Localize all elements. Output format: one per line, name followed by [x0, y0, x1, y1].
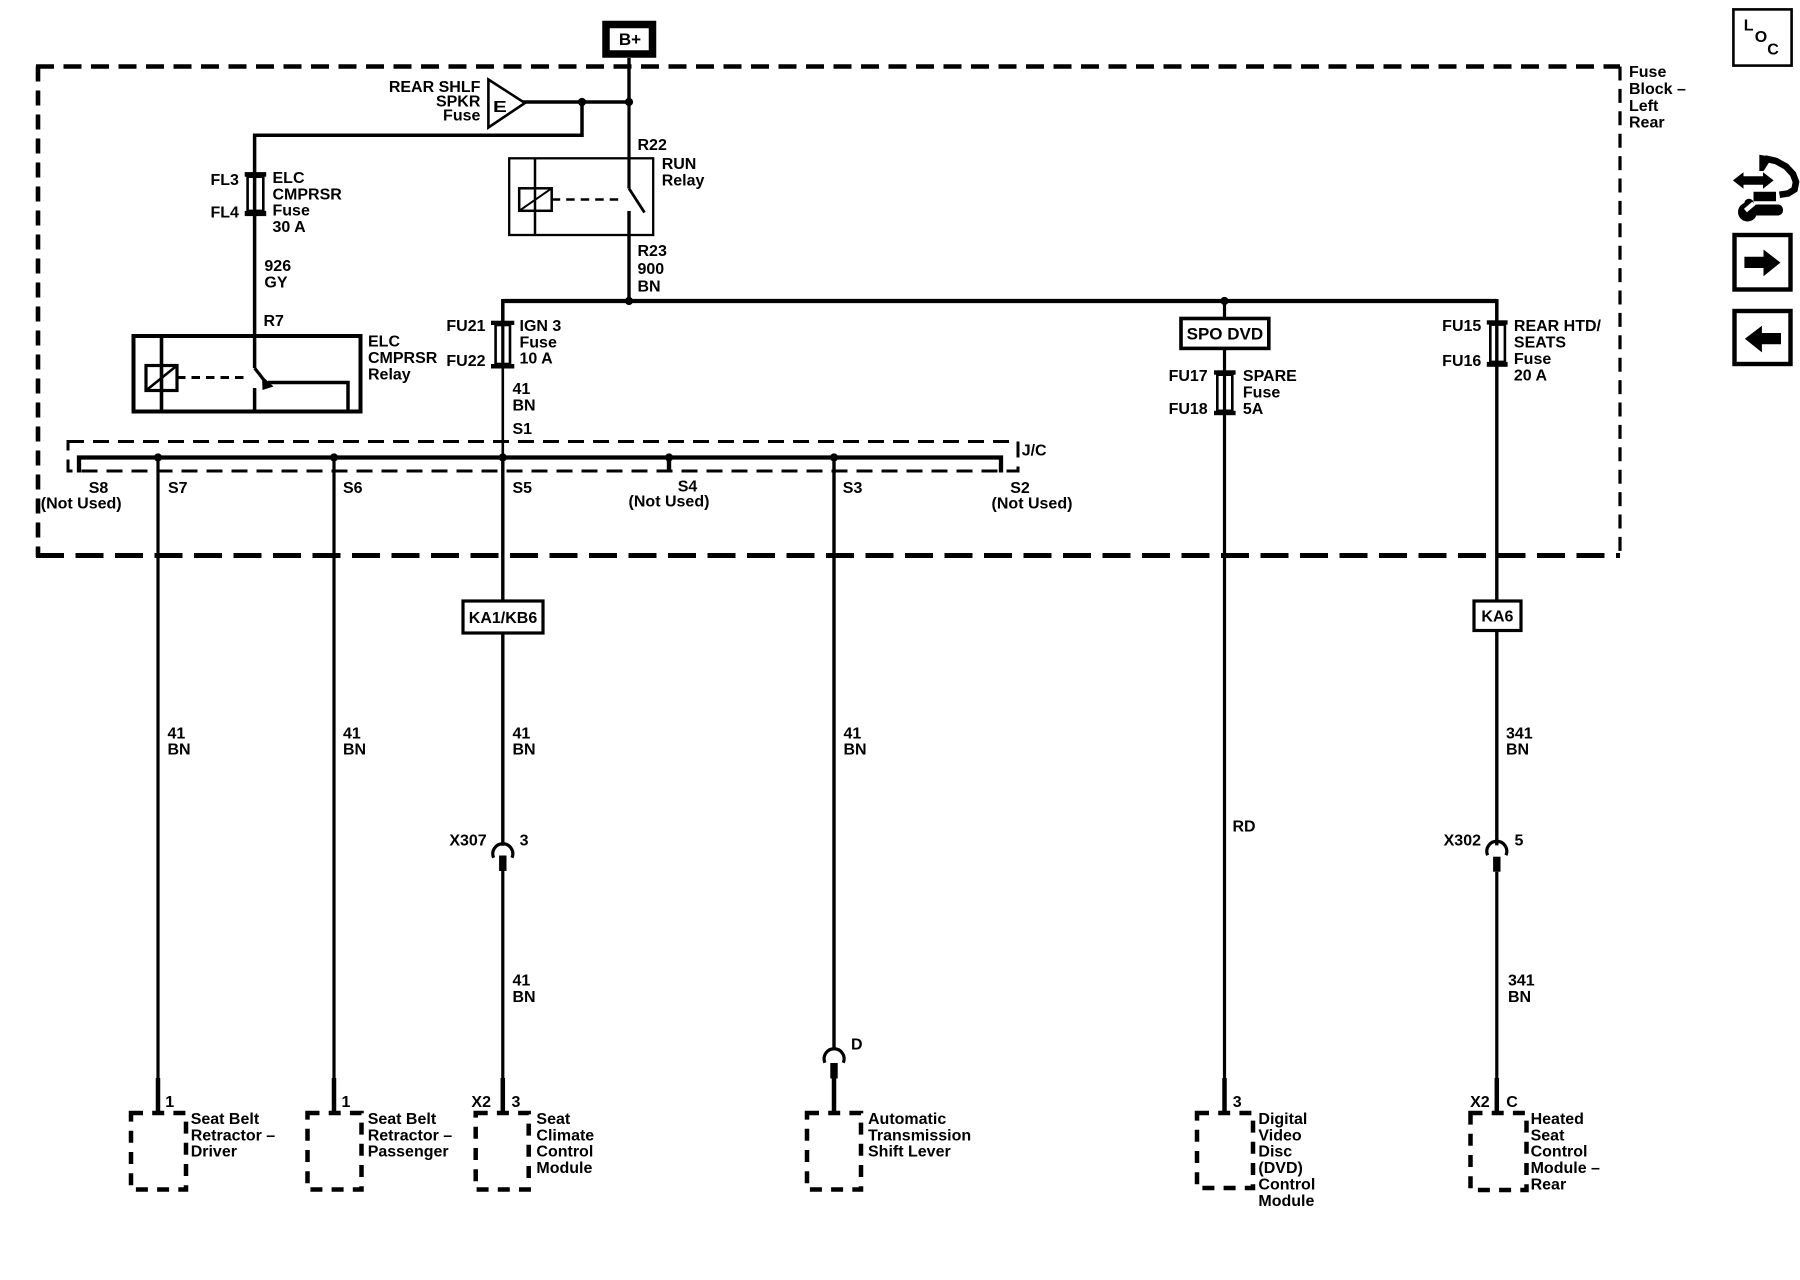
relay R7 dashed actuator link — [177, 376, 248, 379]
relay R7 coil — [146, 366, 177, 391]
svg-text:BN: BN — [513, 742, 536, 759]
svg-text:FL3: FL3 — [211, 172, 240, 189]
svg-text:5: 5 — [1515, 833, 1524, 850]
icon double arrow — [1733, 172, 1774, 188]
connector D symbol — [824, 1049, 844, 1063]
svg-text:3: 3 — [1233, 1094, 1242, 1111]
svg-text:Fuse: Fuse — [273, 203, 310, 220]
wire FL3 top stub through fuse — [253, 172, 257, 216]
svg-text:O: O — [1755, 29, 1767, 46]
svg-text:Shift Lever: Shift Lever — [868, 1144, 951, 1161]
svg-text:Climate: Climate — [536, 1127, 594, 1144]
wire triangle apex to B+ vertical — [523, 100, 631, 103]
svg-text:Relay: Relay — [662, 173, 705, 190]
svg-text:FU21: FU21 — [446, 318, 485, 335]
svg-text:Passenger: Passenger — [368, 1144, 449, 1161]
svg-text:KA1/KB6: KA1/KB6 — [469, 610, 538, 627]
svg-text:Retractor –: Retractor – — [191, 1127, 276, 1144]
svg-text:R23: R23 — [638, 243, 667, 260]
svg-text:KA6: KA6 — [1481, 609, 1513, 626]
svg-text:SEATS: SEATS — [1514, 335, 1566, 352]
relay R22 switch arm — [629, 189, 645, 213]
svg-text:Fuse: Fuse — [443, 108, 480, 125]
svg-text:Module: Module — [1258, 1193, 1314, 1210]
component box Seat Climate Control Module — [476, 1113, 529, 1190]
svg-text:341: 341 — [1506, 725, 1533, 742]
component box Heated Seat Control Module Rear — [1471, 1113, 1527, 1190]
fuse block outer dashed border bottom — [36, 553, 1620, 558]
svg-text:Driver: Driver — [191, 1144, 237, 1161]
svg-text:D: D — [851, 1037, 863, 1054]
svg-text:BN: BN — [513, 397, 536, 414]
relay R22 RUN relay box — [509, 158, 653, 235]
relay R7 switch arm with contact — [255, 368, 267, 384]
svg-text:Block –: Block – — [1629, 81, 1686, 98]
svg-text:(Not Used): (Not Used) — [41, 495, 122, 512]
svg-text:41: 41 — [343, 725, 361, 742]
wire bus left corner down to FU21 — [501, 299, 505, 321]
connector X302 pin 5 symbol — [1487, 841, 1507, 855]
svg-text:REAR HTD/: REAR HTD/ — [1514, 318, 1602, 335]
svg-text:ELC: ELC — [273, 170, 305, 187]
wire through FU21 — [501, 321, 504, 368]
svg-text:41: 41 — [168, 725, 186, 742]
svg-text:FU15: FU15 — [1442, 318, 1481, 335]
icon right arrow box — [1735, 235, 1791, 290]
svg-text:BN: BN — [343, 742, 366, 759]
fuse symbol REAR SHLF SPKR (triangle E) — [488, 80, 525, 128]
node junction dot at 582,102 — [578, 98, 586, 106]
icon left arrow box — [1735, 311, 1791, 364]
svg-text:926: 926 — [264, 258, 291, 275]
wire S5 column J/C to KA1/KB6 — [501, 458, 504, 602]
svg-text:Fuse: Fuse — [1243, 385, 1280, 402]
svg-text:R22: R22 — [638, 137, 667, 154]
svg-text:10 A: 10 A — [520, 351, 554, 368]
svg-text:C: C — [1506, 1094, 1518, 1111]
harness connector KA1/KB6 box — [463, 601, 543, 633]
component box Automatic Transmission Shift Lever — [807, 1113, 861, 1190]
wire 341 BN below X302 to module — [1495, 872, 1498, 1113]
wire main feed bus — [503, 299, 1497, 303]
svg-text:X307: X307 — [449, 833, 486, 850]
svg-text:3: 3 — [512, 1094, 521, 1111]
fuse FU17/FU18 SPARE symbol — [1214, 370, 1236, 374]
svg-text:X302: X302 — [1444, 833, 1481, 850]
svg-text:20 A: 20 A — [1514, 367, 1548, 384]
svg-text:R7: R7 — [264, 313, 285, 330]
svg-text:BN: BN — [844, 742, 867, 759]
fuse block outer dashed border top — [36, 64, 1620, 69]
svg-text:Fuse: Fuse — [1629, 64, 1666, 81]
svg-text:41: 41 — [513, 973, 531, 990]
wire SPO DVD to FU17 — [1223, 348, 1226, 370]
B+ power node box — [606, 25, 653, 55]
svg-text:L: L — [1744, 18, 1754, 35]
svg-text:Seat: Seat — [536, 1111, 570, 1128]
svg-text:Control: Control — [1531, 1144, 1588, 1161]
relay R7 ELC CMPRSR relay box — [134, 336, 361, 412]
wire 41 BN below X307 to module — [501, 871, 504, 1113]
wire bus right corner down to FU15 — [1495, 299, 1499, 321]
component box Seat Belt Retractor Passenger — [308, 1113, 362, 1190]
svg-text:3: 3 — [520, 833, 529, 850]
svg-text:Automatic: Automatic — [868, 1111, 946, 1128]
component box DVD Control Module — [1197, 1113, 1253, 1188]
wire S6 pin stub — [332, 1078, 337, 1113]
svg-text:Relay: Relay — [368, 366, 411, 383]
icon wrench — [1738, 199, 1783, 222]
wire KA1/KB6 to X307 — [501, 633, 504, 846]
svg-text:S7: S7 — [168, 480, 188, 497]
wire S7 pin stub — [156, 1078, 161, 1113]
svg-text:FU18: FU18 — [1169, 401, 1208, 418]
svg-text:X2: X2 — [1470, 1094, 1490, 1111]
node S7 junction dot — [154, 453, 162, 461]
fuse FU21/FU22 IGN 3 symbol — [491, 321, 514, 325]
svg-text:Left: Left — [1629, 98, 1659, 115]
node S4 junction dot and stub — [665, 453, 673, 461]
svg-text:S1: S1 — [513, 421, 533, 438]
wire SPO DVD drop from bus — [1223, 301, 1226, 319]
svg-text:41: 41 — [513, 725, 531, 742]
svg-text:Video: Video — [1258, 1127, 1302, 1144]
svg-text:41: 41 — [513, 381, 531, 398]
wire S7 column down to Seat Belt Retractor Driver — [156, 458, 159, 1114]
wire R22 from junction into relay — [627, 102, 630, 189]
connector X307 pin 3 symbol — [493, 844, 513, 858]
fuse block outer dashed border right — [1618, 67, 1621, 558]
relay R7 output stub — [253, 388, 257, 412]
wire S6 column down to Seat Belt Retractor Passenger — [332, 458, 335, 1114]
svg-text:C: C — [1767, 42, 1779, 59]
wire S5 pin stub — [501, 1078, 506, 1113]
svg-text:Module –: Module – — [1531, 1160, 1600, 1177]
wire below D to shift lever — [832, 1079, 837, 1114]
icon vehicle loop arrow — [1754, 155, 1797, 197]
relay R7 coil vertical line — [160, 336, 164, 412]
svg-text:(DVD): (DVD) — [1258, 1160, 1302, 1177]
svg-text:SPO DVD: SPO DVD — [1187, 325, 1264, 344]
svg-text:Retractor –: Retractor – — [368, 1127, 453, 1144]
svg-text:IGN 3: IGN 3 — [520, 318, 562, 335]
svg-text:Rear: Rear — [1629, 115, 1665, 132]
svg-text:RUN: RUN — [662, 156, 697, 173]
fuse block outer dashed border left — [36, 67, 41, 558]
fusible link FL3/FL4 ELC CMPRSR fuse symbol — [245, 172, 267, 177]
svg-text:X2: X2 — [471, 1094, 491, 1111]
svg-text:BN: BN — [1508, 989, 1531, 1006]
svg-text:Heated: Heated — [1531, 1111, 1584, 1128]
node S6 junction dot — [330, 453, 338, 461]
svg-text:Seat: Seat — [1531, 1127, 1565, 1144]
relay R22 coil vertical line — [534, 158, 537, 235]
J/C internal bus — [79, 458, 1001, 473]
svg-text:BN: BN — [168, 742, 191, 759]
node junction dot bus/R23 — [625, 297, 633, 305]
svg-text:FU22: FU22 — [446, 353, 485, 370]
svg-text:B+: B+ — [619, 30, 641, 49]
wire 341 BN below FU15 to KA6 — [1495, 367, 1498, 601]
svg-text:BN: BN — [638, 279, 661, 296]
svg-text:Disc: Disc — [1258, 1144, 1292, 1161]
wire KA6 to X302 — [1495, 631, 1498, 846]
svg-text:J/C: J/C — [1022, 443, 1047, 460]
svg-text:S6: S6 — [343, 480, 363, 497]
wire HS pin stub — [1495, 1078, 1500, 1113]
node junction dot bus/SPO DVD — [1220, 297, 1228, 305]
svg-text:GY: GY — [264, 274, 287, 291]
svg-text:Seat Belt: Seat Belt — [191, 1111, 260, 1128]
svg-text:FU17: FU17 — [1169, 368, 1208, 385]
svg-text:FU16: FU16 — [1442, 353, 1481, 370]
relay R22 coil — [519, 188, 552, 211]
wire S3 column down to D connector — [832, 458, 835, 1051]
svg-text:CMPRSR: CMPRSR — [273, 186, 343, 203]
svg-text:BN: BN — [513, 989, 536, 1006]
svg-text:Fuse: Fuse — [1514, 351, 1551, 368]
svg-text:ELC: ELC — [368, 334, 400, 351]
wire through FU15 — [1495, 320, 1498, 367]
svg-text:900: 900 — [638, 261, 665, 278]
svg-text:5A: 5A — [1243, 401, 1264, 418]
svg-text:Rear: Rear — [1531, 1177, 1567, 1194]
svg-text:S3: S3 — [843, 480, 863, 497]
wire 926 GY below FL3 fuse to ELC relay — [253, 216, 257, 338]
component box Seat Belt Retractor Driver — [131, 1113, 186, 1190]
svg-text:Control: Control — [1258, 1177, 1315, 1194]
wire DVD pin stub — [1222, 1078, 1227, 1113]
node junction dot at 629,102 — [625, 98, 633, 106]
svg-text:Control: Control — [536, 1144, 593, 1161]
wire 41 BN S1 below FU21 to J/C — [501, 368, 504, 458]
wire R7 from fuse into relay — [253, 338, 257, 368]
junction connector J/C dashed box — [68, 442, 1018, 472]
svg-text:BN: BN — [1506, 742, 1529, 759]
svg-text:(Not Used): (Not Used) — [992, 495, 1073, 512]
svg-text:E: E — [493, 99, 507, 116]
relay R7 closed contact path — [268, 383, 348, 412]
svg-text:SPARE: SPARE — [1243, 368, 1297, 385]
svg-text:Fuse: Fuse — [520, 334, 557, 351]
svg-text:CMPRSR: CMPRSR — [368, 350, 438, 367]
svg-text:RD: RD — [1233, 819, 1256, 836]
icon LOC box — [1733, 9, 1791, 65]
relay R22 dashed actuator link — [552, 198, 623, 201]
svg-text:30 A: 30 A — [273, 219, 307, 236]
wire B+ down to junction — [627, 58, 630, 104]
svg-text:Transmission: Transmission — [868, 1127, 971, 1144]
svg-text:(Not Used): (Not Used) — [629, 494, 710, 511]
svg-text:FL4: FL4 — [211, 204, 240, 221]
svg-text:1: 1 — [165, 1094, 174, 1111]
svg-text:Seat Belt: Seat Belt — [368, 1111, 437, 1128]
wire RD below FU17 down to DVD module — [1223, 415, 1226, 1113]
svg-text:341: 341 — [1508, 973, 1535, 990]
svg-text:41: 41 — [844, 725, 862, 742]
node S3 junction dot — [830, 453, 838, 461]
fuse FU15/FU16 REAR HTD SEATS symbol — [1487, 320, 1508, 324]
wire through FU17 — [1223, 370, 1226, 415]
node S5 junction dot — [499, 453, 507, 461]
svg-text:S5: S5 — [513, 480, 533, 497]
wire from junction down then left to FL3 fuse — [255, 102, 582, 172]
svg-text:1: 1 — [342, 1094, 351, 1111]
svg-text:Digital: Digital — [1258, 1111, 1307, 1128]
svg-text:Module: Module — [536, 1160, 592, 1177]
wire R23 900 BN relay output down to bus — [627, 211, 630, 303]
harness connector SPO DVD box — [1181, 319, 1269, 349]
harness connector KA6 box — [1474, 601, 1521, 631]
